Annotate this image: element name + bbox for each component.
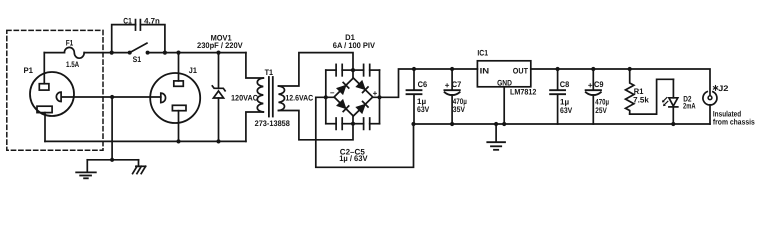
label J2 asterisk — [713, 86, 717, 91]
diode D1 top-right — [357, 81, 368, 92]
diode D1 top-left — [338, 83, 349, 94]
earth ground center — [487, 124, 505, 150]
svg-text:25V: 25V — [595, 106, 607, 115]
svg-text:230pF / 220V: 230pF / 220V — [197, 41, 243, 50]
node junction earth — [494, 122, 498, 126]
wire snubber left rail — [325, 70, 327, 124]
svg-text:C9: C9 — [594, 80, 604, 89]
node junction C7 top — [450, 67, 454, 71]
capacitor C9 electrolytic — [586, 69, 601, 124]
capacitor C8 — [550, 69, 565, 124]
enclosure dashed box — [7, 30, 103, 150]
node junction ground bar — [110, 158, 114, 162]
wire P1 bottom lead — [44, 113, 46, 142]
capacitor C1 branch wires — [112, 25, 165, 53]
node junction plus-snubber — [377, 95, 381, 99]
capacitor C3 top-right snubber — [353, 64, 380, 75]
wire J1 top lead — [178, 53, 180, 81]
node junction J1 top — [176, 51, 180, 55]
svg-text:C1: C1 — [123, 16, 132, 25]
node junction C9 top — [591, 67, 595, 71]
resistor R1 — [626, 69, 634, 114]
node junction D2 bottom — [671, 122, 675, 126]
regulator IC1 — [477, 61, 530, 87]
capacitor C4 bottom-left snubber — [326, 118, 353, 129]
node junction C7 bottom — [450, 122, 454, 126]
svg-text:63V: 63V — [417, 105, 430, 114]
jack J2 — [703, 92, 717, 124]
node junction ground tap — [110, 95, 114, 99]
svg-text:F1: F1 — [66, 39, 74, 48]
svg-text:T1: T1 — [265, 68, 274, 77]
capacitor C1 plates — [136, 20, 141, 31]
svg-text:+: + — [588, 81, 593, 90]
wire IC1 out rail — [531, 69, 710, 96]
fuse F1 — [44, 47, 129, 58]
svg-text:LM7812: LM7812 — [510, 87, 537, 96]
wire bridge plus out — [373, 69, 478, 97]
earth ground left — [76, 160, 96, 179]
capacitor C2 top-left snubber — [326, 64, 353, 75]
ground bar — [87, 159, 138, 161]
wire primary top down — [246, 53, 263, 78]
svg-text:IC1: IC1 — [477, 48, 488, 57]
svg-text:12.6VAC: 12.6VAC — [285, 93, 313, 102]
node junction J1 bottom — [176, 139, 180, 143]
transformer T1 secondary winding — [279, 86, 285, 111]
wire J1 bottom lead — [178, 111, 180, 142]
svg-text:OUT: OUT — [513, 66, 528, 75]
svg-text:2mA: 2mA — [683, 101, 696, 110]
wire IC1 GND lead — [503, 87, 505, 124]
svg-text:J1: J1 — [189, 66, 198, 75]
svg-text:IN: IN — [480, 66, 490, 75]
varistor MOV1 — [212, 53, 225, 142]
diode D1 bottom-left — [338, 100, 349, 111]
svg-text:C6: C6 — [418, 80, 428, 89]
LED D2 — [662, 79, 678, 124]
connector J1 — [150, 73, 200, 123]
node junction C1 right — [163, 51, 167, 55]
node junction fuse/C1 — [110, 51, 114, 55]
svg-text:+: + — [445, 81, 450, 90]
svg-text:6A / 100 PIV: 6A / 100 PIV — [333, 41, 376, 50]
node junction C8 top — [556, 67, 560, 71]
svg-text:1.5A: 1.5A — [66, 60, 79, 69]
svg-text:from chassis: from chassis — [713, 117, 755, 126]
svg-text:7.5k: 7.5k — [633, 96, 649, 105]
transformer T1 core — [269, 77, 273, 117]
ground rail — [414, 123, 711, 125]
svg-text:63V: 63V — [560, 106, 573, 115]
wire bridge minus out — [316, 97, 414, 167]
svg-text:P1: P1 — [24, 66, 34, 75]
capacitor C5 bottom-right snubber — [353, 118, 380, 129]
chassis ground — [133, 160, 146, 174]
node junction R1 top — [628, 67, 632, 71]
wire ground tap down — [111, 97, 113, 160]
svg-text:C7: C7 — [452, 80, 462, 89]
diode D1 bottom-right — [357, 102, 368, 113]
svg-text:120VAC: 120VAC — [231, 94, 258, 103]
svg-text:1µ / 63V: 1µ / 63V — [339, 154, 368, 163]
capacitor C7 electrolytic — [444, 69, 459, 124]
rectifier D1 diamond — [334, 78, 373, 116]
wire ground interconnect P1-J1 — [62, 96, 161, 98]
svg-text:J2: J2 — [718, 84, 729, 93]
transformer T1 primary winding — [257, 78, 263, 112]
wire snubber right rail — [379, 70, 381, 124]
svg-text:S1: S1 — [133, 55, 142, 64]
node junction MOV1 top — [216, 51, 220, 55]
capacitor C6 — [407, 69, 422, 124]
svg-text:C8: C8 — [560, 80, 570, 89]
node junction bridge top AC — [351, 68, 355, 72]
node junction C6 top — [412, 67, 416, 71]
node junction MOV1 bottom — [216, 139, 220, 143]
node junction bridge bottom AC — [351, 122, 355, 126]
wire S1 to transformer primary top — [148, 52, 246, 54]
node junction GND rail — [502, 122, 506, 126]
svg-text:35V: 35V — [453, 105, 466, 114]
wire bottom AC line — [45, 140, 246, 142]
node junction C6 bottom — [411, 122, 415, 126]
connector P1 — [30, 72, 74, 116]
wire P1 top slot to fuse line — [43, 53, 45, 84]
switch S1 — [128, 43, 150, 54]
node junction minus-snubber — [324, 95, 328, 99]
svg-text:4.7n: 4.7n — [144, 16, 160, 25]
wire primary bottom down — [246, 112, 263, 141]
svg-text:273-13858: 273-13858 — [255, 119, 291, 128]
wire secondary top to bridge — [279, 53, 354, 86]
svg-text:–: – — [330, 88, 335, 97]
wire R1 to D2 series link — [630, 79, 674, 114]
wire secondary bottom to bridge — [279, 111, 354, 140]
